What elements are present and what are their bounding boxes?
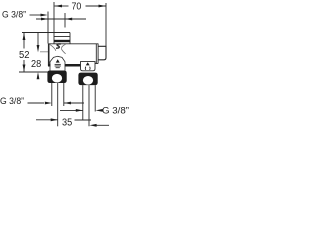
left tail pipe center line: [57, 83, 59, 126]
body: bottom dark band right part: [65, 64, 81, 67]
outlet stub: [98, 46, 106, 60]
svg-text:G 3/8”: G 3/8”: [102, 106, 129, 116]
dimension 28: vertical tail upper: [37, 33, 39, 46]
right symbol arcs: [84, 67, 87, 70]
aerator cup right: [81, 62, 96, 71]
dimension 52: vertical line upper: [23, 33, 25, 49]
dimension 52: top arrow: [23, 33, 26, 40]
body: arm top edge y=44: [49, 43, 98, 45]
hex nut left white center: [52, 74, 62, 83]
left pipe OD dim right arrow (tip x=64): [64, 102, 71, 105]
extension line x=106 (right end of 70): [105, 3, 107, 46]
left symbol bars: [55, 63, 61, 65]
wall flange verticals: [95, 44, 97, 64]
svg-text:52: 52: [19, 50, 30, 61]
extension line x=65: [64, 13, 66, 28]
svg-text:G 3/8”: G 3/8”: [0, 96, 24, 106]
body: left funnel curve: [50, 44, 56, 51]
right pipe OD dim line: [60, 109, 83, 111]
right tail pipe wall right: [94, 85, 96, 111]
dimension 70: line right segment: [86, 5, 107, 7]
small dimension line y=19: [36, 18, 86, 20]
body: top box mid line y=36.5: [54, 36, 70, 38]
extension line x=48 upper: [47, 12, 49, 44]
svg-text:70: 70: [72, 1, 82, 12]
small dimension right arrow (tip x=65): [65, 18, 72, 21]
svg-text:G 3/8”: G 3/8”: [2, 10, 26, 20]
hex nut right white center: [83, 76, 93, 85]
leader line for G3/8 top-left: [30, 14, 43, 16]
body: heavy left edge: [48, 44, 50, 67]
dimension 70: right arrow: [99, 5, 106, 8]
svg-text:28: 28: [31, 59, 42, 70]
leader arrow to left pipe (tip x=51.8): [45, 102, 52, 105]
leader tail bottom-right: [97, 124, 110, 126]
body: S squiggle: [56, 44, 61, 48]
extension line x=54 (left end of 70): [53, 2, 55, 33]
dimension 35: left arrow (tip x=57.7): [51, 118, 58, 121]
right tail pipe center line: [88, 85, 90, 126]
body: bottom dark band left sliver: [48, 64, 50, 67]
dimension 52: vertical line lower: [23, 60, 25, 72]
dimension 52: bottom arrow: [23, 65, 26, 72]
small dimension left arrow (tip x=48): [41, 18, 48, 21]
dimension 70: left arrow: [55, 5, 62, 8]
hex nut right (dark): [78, 73, 97, 86]
body: top box left vertical x=54: [53, 33, 55, 44]
hex nut left (dark): [47, 71, 66, 84]
body: right funnel curve: [62, 44, 66, 54]
dimension 28: lower arrow pointing up (tip y=72): [37, 72, 40, 79]
extension line y=32.5 top (shared with body top): [22, 32, 70, 34]
leader arrow G3/8 top-left: [41, 14, 48, 17]
flange bottom tick: [95, 63, 98, 65]
body: top box dark band: [54, 40, 70, 42]
leader line G3/8 bottom-left: [28, 102, 45, 104]
right pipe OD dim left arrow (tip x=82.8): [76, 109, 83, 112]
svg-text:35: 35: [62, 118, 73, 129]
extension line y=52 (gray): [40, 51, 49, 53]
left tail pipe wall left: [51, 83, 53, 106]
dimension 70: line left segment: [55, 5, 69, 7]
left tail pipe wall right: [63, 83, 65, 106]
right tail pipe wall left: [82, 85, 84, 119]
body: top box right vertical x=70: [69, 33, 71, 45]
left flow arrow symbol: [56, 59, 60, 62]
right flow arrow symbol: [86, 62, 90, 65]
left pipe OD dim tail: [64, 102, 84, 104]
extension line y=72 bottom: [19, 71, 50, 73]
leader arrow G3/8 bottom-right (tip x=95.4): [96, 109, 103, 112]
dimension 35: line left: [36, 119, 58, 121]
check valve housing left (house shape): [50, 56, 65, 70]
dimension 35: line right: [75, 119, 92, 121]
dimension 35: right arrow on centerline (tip x=89.5): [90, 124, 97, 127]
dimension 28: upper arrow pointing down (tip y=52): [37, 45, 40, 52]
